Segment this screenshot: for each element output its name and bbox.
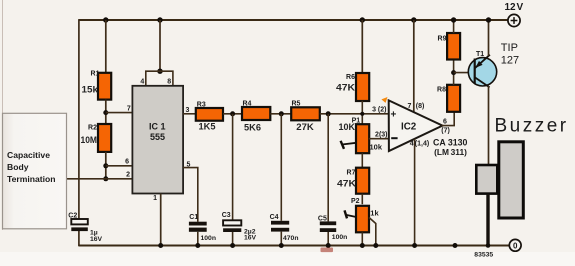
svg-text:555: 555 [150, 132, 165, 142]
wire R5 to op-amp + input [320, 113, 389, 115]
wire top supply rail [79, 19, 508, 21]
wire rail to IC2 pin 7(8) [413, 20, 415, 112]
svg-text:1K5: 1K5 [199, 122, 217, 133]
node IC2 pin4 ground [412, 243, 417, 248]
svg-text:R9: R9 [438, 36, 447, 43]
svg-text:0: 0 [513, 241, 518, 250]
wire rail to R6 [361, 20, 363, 74]
node riser/bracket junction [157, 69, 162, 74]
wire P1 to R7 [361, 153, 363, 168]
wire C5 drop [327, 114, 329, 222]
svg-text:C3: C3 [222, 212, 231, 219]
capacitor C5 100n [318, 215, 347, 245]
svg-text:10M: 10M [81, 135, 98, 146]
node IC2 supply rail [411, 17, 416, 22]
svg-text:1k: 1k [370, 208, 379, 217]
svg-text:8: 8 [167, 79, 171, 86]
resistor R9 [438, 33, 461, 60]
wire R4 to R5 [270, 113, 291, 115]
svg-text:R7: R7 [347, 170, 356, 177]
svg-text:TIP: TIP [501, 42, 518, 54]
node 555 supply riser top [157, 17, 162, 22]
wire C4 drop [280, 114, 282, 221]
svg-text:(8): (8) [416, 103, 425, 110]
wire IC2 pin 4 to ground [414, 139, 416, 246]
red watermark smudge [321, 248, 334, 253]
wire R7 to P2 [361, 194, 363, 205]
svg-text:CA 3130: CA 3130 [433, 138, 468, 148]
node C3 ground [230, 243, 235, 248]
svg-text:Termination: Termination [7, 174, 56, 184]
svg-text:R4: R4 [243, 100, 252, 107]
svg-text:6: 6 [125, 159, 129, 166]
node pin 2 junction [103, 176, 108, 181]
svg-text:470n: 470n [283, 235, 299, 242]
svg-text:47K: 47K [336, 83, 355, 94]
svg-text:2: 2 [126, 172, 130, 179]
wire bottom ground rail [79, 244, 510, 246]
svg-text:(7): (7) [441, 127, 450, 134]
wire C3 drop [232, 114, 234, 221]
transistor T1 TIP127 [468, 51, 496, 87]
node C1 ground [195, 243, 200, 248]
terminal 0 [509, 239, 521, 251]
node rail dot near 83535 [453, 243, 458, 248]
wire pin 5 to C1 [183, 168, 198, 222]
svg-text:(1,4): (1,4) [415, 141, 429, 148]
svg-text:C2: C2 [68, 213, 77, 220]
capacitor C4 470n [270, 214, 299, 245]
resistor R3 1K5 [196, 101, 223, 132]
buzzer element [476, 142, 523, 218]
IC1 555 timer [132, 86, 183, 194]
wire R6 to P1 crossing + wire [361, 101, 363, 125]
node pin1 ground [158, 243, 163, 248]
svg-text:R2: R2 [88, 125, 97, 132]
wire pin4-pin8 bracket [146, 71, 173, 86]
capacitor C3 2u2 16V electrolytic [222, 212, 257, 245]
node base junction [451, 70, 456, 75]
svg-text:P2: P2 [351, 198, 360, 205]
potentiometer P1 10K [339, 117, 383, 153]
svg-text:+: + [391, 109, 397, 120]
wire pin 1 to ground [160, 194, 162, 246]
node R9 rail [451, 17, 456, 22]
svg-text:IC 1: IC 1 [149, 122, 166, 132]
svg-text:(LM 311): (LM 311) [434, 147, 467, 157]
svg-text:R5: R5 [292, 101, 301, 108]
orange marker arrow [381, 97, 387, 103]
svg-text:3 (2): 3 (2) [372, 107, 386, 114]
capacitor C1 100n [189, 214, 216, 246]
svg-text:2(3): 2(3) [375, 132, 387, 139]
wire rail to R1 [105, 20, 107, 74]
wire P2 wiper elbow to ground [369, 217, 376, 245]
node C4 ground [279, 243, 284, 248]
resistor R5 27K [291, 101, 320, 133]
svg-text:1: 1 [153, 195, 157, 202]
svg-text:R3: R3 [197, 101, 206, 108]
wire R2 down to pin2 node [105, 152, 107, 180]
svg-text:127: 127 [501, 55, 519, 67]
node emitter rail [486, 17, 491, 22]
node R6/P1 at + wire [360, 112, 364, 116]
capacitor C2 1u 16V electrolytic [68, 213, 102, 244]
svg-text:6: 6 [443, 119, 447, 126]
wire C2 to bottom rail [78, 231, 80, 247]
svg-text:Body: Body [7, 162, 29, 172]
svg-text:Buzzer: Buzzer [495, 116, 569, 137]
wire R1 to R2 [105, 100, 107, 125]
resistor R7 47K [337, 168, 369, 194]
resistor R2 10M [81, 124, 112, 152]
potentiometer P2 1k [345, 198, 380, 232]
svg-text:3: 3 [186, 107, 190, 114]
resistor R8 [437, 85, 460, 112]
op-amp IC2 triangle [389, 100, 443, 151]
node pin 6 junction [103, 163, 108, 168]
svg-text:16V: 16V [244, 235, 257, 242]
resistor R1 15k [82, 71, 112, 100]
svg-text:C4: C4 [270, 214, 279, 221]
svg-text:83535: 83535 [474, 252, 493, 259]
wire R3 to R4 [223, 113, 242, 115]
wire R9 to rail [453, 20, 455, 33]
svg-text:10K: 10K [339, 122, 356, 133]
svg-text:4: 4 [410, 141, 414, 148]
node C5 tap [326, 111, 331, 116]
svg-text:100n: 100n [332, 234, 348, 241]
wire pin 7 [106, 112, 133, 114]
resistor R6 47K [336, 73, 369, 101]
svg-text:47K: 47K [337, 179, 356, 190]
svg-text:T1: T1 [476, 51, 484, 58]
wire pin 6 [106, 165, 133, 167]
wire left supply branch down to C2 [78, 19, 80, 219]
wire 555 supply riser [159, 20, 161, 71]
terminal +12V [505, 2, 524, 26]
node C4 tap [279, 111, 284, 116]
svg-text:16V: 16V [90, 236, 103, 243]
wire pin 3 to R3 [183, 113, 196, 115]
svg-text:100n: 100n [201, 235, 217, 242]
node top rail / R1 column [103, 17, 108, 22]
svg-text:R1: R1 [91, 71, 100, 78]
svg-text:15k: 15k [82, 85, 99, 96]
svg-text:10k: 10k [370, 143, 383, 152]
svg-text:5: 5 [187, 162, 191, 169]
wire pin 2 from sensor box [67, 178, 133, 180]
sensor box Capacitive Body Termination [3, 113, 67, 229]
node buzzer ground [486, 243, 491, 248]
wire P1 wiper to op-amp - input [369, 138, 389, 140]
svg-text:12 V: 12 V [505, 2, 524, 13]
svg-text:C5: C5 [318, 215, 327, 222]
svg-text:R6: R6 [346, 74, 355, 81]
node R6 rail [360, 17, 365, 22]
wire R8 to base node [453, 60, 455, 86]
svg-text:C1: C1 [189, 214, 198, 221]
svg-text:4: 4 [140, 79, 144, 86]
node P2 wiper ground [373, 243, 378, 248]
wire base [454, 72, 477, 74]
svg-text:27K: 27K [296, 122, 314, 133]
wire emitter to rail [488, 20, 490, 56]
wire buzzer to ground (thick) [486, 194, 489, 246]
wire collector to buzzer [488, 86, 490, 165]
wire P2 to ground [361, 232, 363, 245]
wire IC2 output pin 6 [442, 112, 455, 126]
svg-text:5K6: 5K6 [244, 123, 261, 134]
svg-text:R8: R8 [437, 86, 446, 93]
resistor R4 5K6 [242, 100, 270, 133]
node C5 ground [326, 243, 331, 248]
svg-text:7: 7 [127, 106, 131, 113]
node pin7 junction [103, 110, 108, 115]
svg-text:IC2: IC2 [401, 121, 417, 132]
svg-text:Capacitive: Capacitive [7, 150, 50, 160]
node C3 tap [230, 111, 235, 116]
node P2 ground [360, 243, 365, 248]
